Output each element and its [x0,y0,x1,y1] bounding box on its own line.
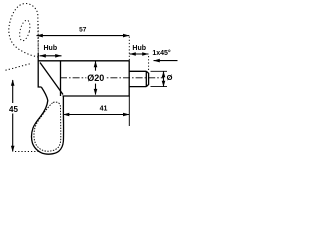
svg-text:Ø20: Ø20 [87,73,104,83]
svg-text:Ø: Ø [167,73,173,82]
svg-text:57: 57 [79,26,87,33]
svg-text:1x45°: 1x45° [152,49,171,57]
svg-text:41: 41 [100,105,108,112]
svg-text:45: 45 [9,105,18,114]
svg-text:Hub: Hub [43,45,57,52]
svg-text:Hub: Hub [132,45,146,52]
